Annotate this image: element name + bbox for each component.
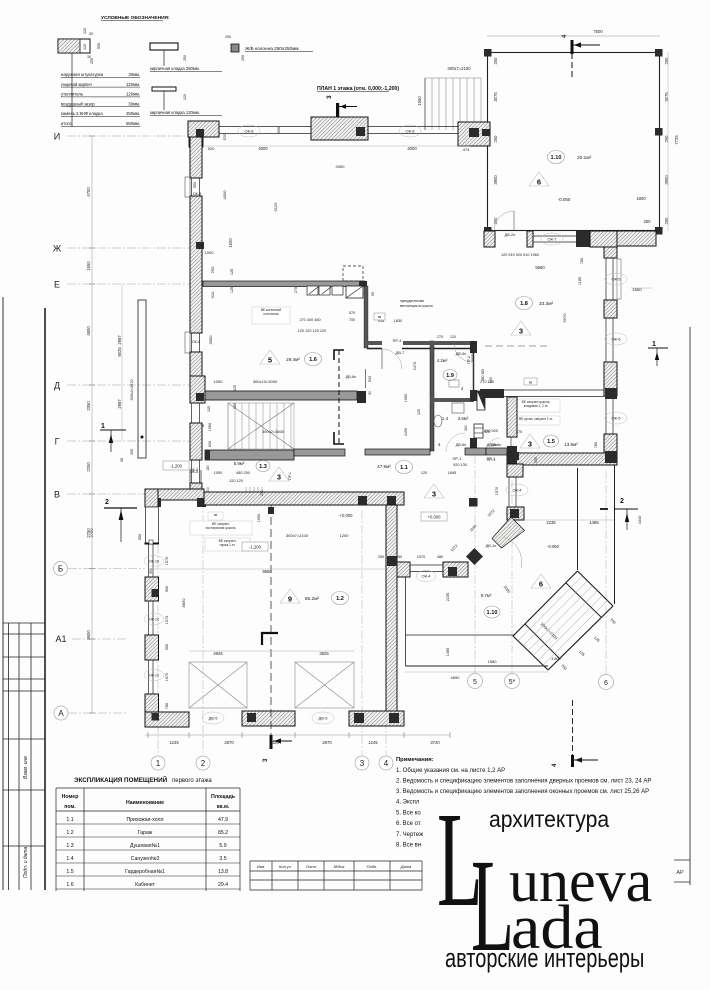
svg-text:3.5: 3.5 bbox=[219, 856, 226, 862]
svg-text:1050: 1050 bbox=[214, 379, 224, 384]
svg-text:33.3м²: 33.3м² bbox=[539, 301, 554, 307]
svg-text:3.5м²: 3.5м² bbox=[458, 416, 469, 421]
svg-text:1580: 1580 bbox=[488, 659, 498, 664]
svg-text:1: 1 bbox=[156, 759, 161, 768]
svg-text:1.9: 1.9 bbox=[446, 373, 454, 379]
svg-text:Гардеробная№1: Гардеробная№1 bbox=[125, 869, 165, 875]
svg-text:920: 920 bbox=[368, 376, 372, 382]
svg-text:-0.050: -0.050 bbox=[547, 544, 560, 549]
svg-text:пом.: пом. bbox=[64, 804, 76, 810]
svg-text:2. Ведомость и спецификацию эл: 2. Ведомость и спецификацию элементов за… bbox=[396, 779, 651, 785]
svg-text:ПР-1: ПР-1 bbox=[453, 457, 462, 461]
svg-text:ДВ-6п: ДВ-6п bbox=[346, 375, 357, 379]
terrace column (484,49) bbox=[484, 49, 492, 57]
east wall seg2 bbox=[604, 300, 617, 318]
frame box hline 7 bbox=[3, 845, 45, 847]
frame box vline 2 bbox=[30, 623, 32, 890]
svg-text:Кабинет: Кабинет bbox=[135, 882, 155, 888]
bottom dim chain bbox=[145, 734, 450, 736]
svg-text:И: И bbox=[54, 132, 60, 142]
svg-text:865: 865 bbox=[489, 377, 493, 383]
svg-text:550: 550 bbox=[97, 43, 101, 49]
svg-text:1.4: 1.4 bbox=[442, 416, 449, 421]
svg-text:520: 520 bbox=[222, 133, 227, 140]
svg-text:9.7м²: 9.7м² bbox=[481, 593, 492, 598]
window ОК-10 a bbox=[149, 544, 154, 577]
svg-text:архитектура: архитектура bbox=[489, 806, 610, 832]
svg-text:1.5: 1.5 bbox=[66, 869, 73, 875]
window ОК-8 c bbox=[192, 178, 200, 196]
kitchen top wall mid piece bbox=[527, 231, 533, 247]
svg-text:ДВ-9п: ДВ-9п bbox=[456, 352, 467, 356]
svg-text:8850: 8850 bbox=[181, 598, 186, 608]
axis line В bbox=[67, 493, 192, 495]
svg-text:550: 550 bbox=[193, 182, 197, 188]
room label 1.3 bbox=[256, 461, 270, 472]
svg-text:250: 250 bbox=[378, 555, 384, 559]
legend brick250 label underline bbox=[150, 70, 222, 72]
svg-text:2470: 2470 bbox=[413, 362, 417, 370]
column boiler west bbox=[196, 393, 204, 401]
room 1.5 bottom wall bbox=[507, 453, 617, 465]
svg-text:120: 120 bbox=[450, 335, 456, 339]
svg-text:250: 250 bbox=[493, 135, 498, 143]
svg-text:250: 250 bbox=[241, 55, 245, 61]
svg-text:300х10=3000: 300х10=3000 bbox=[253, 379, 278, 384]
axis circle 3 bbox=[355, 756, 369, 770]
svg-text:30мм.: 30мм. bbox=[128, 101, 140, 106]
svg-text:УСЛОВНЫЕ ОБОЗНАЧЕНИЯ:: УСЛОВНЫЕ ОБОЗНАЧЕНИЯ: bbox=[101, 15, 170, 21]
svg-text:1830: 1830 bbox=[394, 319, 402, 323]
bottom chain tick 404 bbox=[403, 732, 405, 738]
hall north wall b bbox=[365, 449, 430, 455]
garage west wall notch bbox=[149, 540, 153, 544]
position 6 se bbox=[531, 574, 551, 589]
bath fixtures bbox=[434, 380, 464, 427]
top-left corner notch bbox=[189, 137, 203, 147]
window ОК-5 left bbox=[192, 460, 200, 483]
svg-text:1.2: 1.2 bbox=[66, 830, 73, 836]
svg-text:1.3: 1.3 bbox=[259, 464, 267, 470]
axis line Д bbox=[67, 384, 192, 386]
svg-text:вк: вк bbox=[214, 513, 218, 517]
bath cluster west wall bbox=[430, 341, 434, 451]
svg-text:2: 2 bbox=[201, 759, 206, 768]
svg-text:3900: 3900 bbox=[493, 175, 498, 185]
axis line Г bbox=[67, 440, 192, 442]
svg-text:1960: 1960 bbox=[208, 423, 212, 431]
left chain tick Ж bbox=[89, 247, 95, 249]
svg-text:910: 910 bbox=[210, 291, 215, 298]
kitchen top wall black pier bbox=[576, 231, 590, 247]
svg-text:ОК-8: ОК-8 bbox=[406, 129, 416, 134]
terrace column (484,227) bbox=[484, 227, 492, 235]
svg-text:вентиляция из цоколя: вентиляция из цоколя bbox=[400, 304, 433, 308]
window ОК-10 b bbox=[149, 601, 154, 635]
plan title underline bbox=[317, 91, 389, 93]
axis line Б bbox=[68, 568, 145, 570]
garage east wall column bbox=[387, 556, 397, 566]
garage west wall seg1 bbox=[145, 543, 159, 544]
svg-text:4340: 4340 bbox=[638, 516, 642, 524]
label вк kitchen2 bbox=[524, 378, 537, 385]
svg-text:9300: 9300 bbox=[336, 164, 346, 169]
svg-text:1800: 1800 bbox=[636, 196, 646, 201]
terrace2 bottom line1 bbox=[406, 634, 516, 636]
label -1.200 garage bbox=[242, 542, 268, 551]
room label 1.10 terrace bbox=[548, 151, 565, 164]
svg-text:ПР-2: ПР-2 bbox=[467, 356, 471, 364]
window ОК-8 b bbox=[368, 127, 458, 134]
axis circle 5 bbox=[468, 674, 483, 689]
svg-text:ОК-8: ОК-8 bbox=[245, 129, 255, 134]
left dim chain line bbox=[91, 136, 93, 713]
door ДВ-7 arc bbox=[382, 349, 402, 369]
svg-text:2: 2 bbox=[620, 498, 624, 505]
legend row 5 underline bbox=[61, 125, 140, 127]
garage centre line blob bbox=[268, 507, 274, 514]
terrace entry stairs bbox=[425, 78, 481, 130]
svg-text:6: 6 bbox=[537, 178, 541, 187]
corridor dashed opening line bbox=[338, 350, 340, 444]
bottom chain tick 148 bbox=[147, 732, 149, 738]
svg-text:3900: 3900 bbox=[664, 175, 669, 185]
window ОК-10 c bbox=[149, 660, 154, 694]
svg-text:Изм.: Изм. bbox=[257, 864, 266, 869]
column south wall bbox=[448, 567, 457, 576]
svg-text:3: 3 bbox=[360, 759, 365, 768]
window ОК-8 a bbox=[219, 127, 311, 134]
svg-text:250: 250 bbox=[644, 219, 652, 224]
svg-text:85.2: 85.2 bbox=[218, 830, 228, 836]
svg-text:1570: 1570 bbox=[165, 616, 169, 624]
exterior wall top-left corner bbox=[188, 121, 219, 137]
legend brick120 symbol bbox=[152, 87, 176, 91]
svg-text:780: 780 bbox=[594, 442, 598, 448]
svg-text:5: 5 bbox=[473, 679, 477, 686]
svg-text:наружная штукатурка: наружная штукатурка bbox=[61, 72, 104, 77]
door ДВ-6п arc hall bbox=[486, 438, 500, 452]
kitchen top wall east piece bbox=[590, 231, 617, 247]
diagonal column (diamond) bbox=[466, 548, 483, 565]
svg-text:3: 3 bbox=[277, 473, 281, 482]
diagonal door ДВ-1п swing bbox=[503, 537, 522, 568]
svg-text:3. Ведомость и спецификацию эл: 3. Ведомость и спецификацию элементов за… bbox=[396, 789, 649, 795]
svg-text:ВЕ кухни, санузел 1 эт.: ВЕ кухни, санузел 1 эт. bbox=[519, 417, 553, 421]
svg-text:4800: 4800 bbox=[86, 326, 91, 336]
svg-text:550: 550 bbox=[277, 127, 281, 133]
svg-text:30мм.: 30мм. bbox=[128, 72, 140, 77]
svg-text:ДВ-6п: ДВ-6п bbox=[456, 443, 467, 447]
svg-text:180: 180 bbox=[206, 465, 210, 471]
garage west wall seg4 corner bbox=[145, 694, 159, 727]
svg-text:1570: 1570 bbox=[165, 673, 169, 681]
section mark 3 top bbox=[326, 95, 357, 131]
svg-text:1050: 1050 bbox=[404, 394, 408, 402]
hall east wall upper bbox=[507, 464, 523, 477]
svg-text:Номер: Номер bbox=[62, 794, 79, 800]
svg-text:1570: 1570 bbox=[165, 557, 169, 565]
position 3 kitchen bbox=[511, 321, 531, 336]
axis grid line 4 bbox=[385, 510, 387, 755]
svg-text:итого:: итого: bbox=[61, 121, 72, 126]
chimney dot bbox=[141, 436, 144, 439]
window label ОК-10 c bbox=[144, 670, 164, 681]
svg-text:ОК-4: ОК-4 bbox=[513, 488, 523, 493]
svg-text:1: 1 bbox=[101, 423, 105, 430]
frame outer left line bbox=[2, 297, 4, 890]
svg-text:воздушный зазор: воздушный зазор bbox=[61, 101, 95, 106]
frame right tick top bbox=[674, 859, 690, 861]
axis grid line 6 bbox=[605, 470, 607, 674]
dashed duct rect bbox=[343, 266, 363, 281]
svg-text:29.4м²: 29.4м² bbox=[286, 357, 300, 362]
axis grid line 3 bbox=[361, 510, 363, 755]
parking dim line bbox=[189, 650, 354, 652]
legend brick120 leader bbox=[163, 91, 165, 110]
svg-text:9: 9 bbox=[288, 595, 292, 604]
terrace section-4 dash line bbox=[571, 53, 573, 78]
legend column label underline bbox=[245, 50, 313, 52]
room label 1.8 bbox=[516, 297, 533, 310]
terrace2 inner vline bbox=[577, 468, 579, 570]
se bottom dim line bbox=[405, 671, 548, 673]
hall east wall lower bbox=[507, 507, 524, 520]
axis grid line 5 bbox=[474, 440, 476, 673]
svg-text:47.9: 47.9 bbox=[218, 817, 228, 823]
hall east wall block a bbox=[511, 452, 519, 460]
top interior dim line bbox=[203, 145, 470, 147]
svg-text:700: 700 bbox=[349, 318, 355, 322]
svg-text:1920: 1920 bbox=[228, 238, 233, 248]
garage south col c bbox=[354, 713, 364, 723]
svg-text:+0.000: +0.000 bbox=[340, 513, 354, 518]
svg-text:120мм.: 120мм. bbox=[126, 92, 140, 97]
section mark 2 right bbox=[600, 498, 638, 530]
svg-text:2870: 2870 bbox=[224, 740, 234, 745]
garage south col d bbox=[389, 713, 399, 723]
bath cluster east wall mid bbox=[473, 353, 475, 390]
svg-text:900: 900 bbox=[165, 586, 169, 592]
label ВЕ котельной bbox=[252, 307, 290, 324]
svg-text:ПЛАН 1 этажа (отм. 0,000;-1,20: ПЛАН 1 этажа (отм. 0,000;-1,200) bbox=[317, 86, 399, 92]
svg-text:1050: 1050 bbox=[214, 471, 222, 475]
garage south wall seg3 bbox=[349, 711, 404, 726]
bottom chain tick 189 bbox=[188, 732, 190, 738]
legend brick250 symbol bbox=[150, 43, 178, 50]
axis grid line 2 bbox=[202, 500, 204, 755]
corridor wall left end bbox=[205, 450, 210, 460]
left chain tick А1 bbox=[89, 638, 95, 640]
svg-text:125: 125 bbox=[230, 287, 234, 293]
svg-text:8600: 8600 bbox=[86, 630, 91, 640]
kitchen top wall west piece bbox=[484, 231, 495, 247]
svg-text:1200: 1200 bbox=[340, 533, 350, 538]
hall south wall west piece bbox=[397, 562, 410, 577]
terrace outline bbox=[488, 53, 660, 231]
left chain tick А bbox=[89, 712, 95, 714]
position 3 hall bbox=[424, 484, 444, 499]
svg-text:7725: 7725 bbox=[674, 135, 679, 145]
svg-text:А: А bbox=[58, 709, 64, 718]
bath divider 1.9/1.4 bbox=[430, 398, 474, 402]
svg-text:3: 3 bbox=[528, 440, 532, 449]
column bay bbox=[356, 127, 365, 136]
svg-text:6. Все от: 6. Все от bbox=[396, 821, 421, 827]
svg-text:ПР-4: ПР-4 bbox=[393, 339, 402, 343]
svg-text:2235: 2235 bbox=[446, 593, 450, 601]
svg-text:4000: 4000 bbox=[258, 146, 268, 151]
boiler bottom wall right end bbox=[357, 391, 366, 403]
basement stairs bbox=[228, 403, 294, 449]
svg-text:1695: 1695 bbox=[448, 471, 456, 475]
window label ОК-10 a bbox=[144, 556, 164, 567]
svg-text:270: 270 bbox=[294, 287, 298, 293]
garage drain mark bbox=[262, 633, 278, 645]
axis grid line 1 bbox=[157, 500, 159, 755]
svg-text:1485: 1485 bbox=[446, 648, 450, 656]
label -1.200 porch bbox=[163, 461, 189, 470]
legend row 2 underline bbox=[61, 96, 140, 98]
room label 1.10 se bbox=[484, 606, 500, 618]
svg-text:Примечания:: Примечания: bbox=[396, 757, 434, 763]
svg-text:125: 125 bbox=[233, 385, 237, 391]
level +0.000 hall bbox=[421, 512, 447, 521]
svg-text:950: 950 bbox=[138, 534, 142, 540]
window label ОК-4 hall bbox=[506, 484, 528, 496]
frame box hline 4 bbox=[3, 690, 45, 692]
svg-text:1.5: 1.5 bbox=[547, 439, 555, 445]
door ДВ-9п bbox=[471, 344, 473, 362]
svg-text:120 120: 120 120 bbox=[229, 479, 243, 483]
svg-text:В: В bbox=[54, 490, 60, 500]
svg-text:50: 50 bbox=[368, 391, 372, 395]
svg-text:4.800: 4.800 bbox=[551, 657, 561, 661]
garage north wall col b bbox=[387, 496, 396, 505]
svg-text:ДВ-5: ДВ-5 bbox=[319, 716, 329, 721]
svg-text:Дата: Дата bbox=[400, 864, 412, 869]
svg-text:920 130: 920 130 bbox=[453, 463, 467, 467]
svg-text:Прихожая-холл: Прихожая-холл bbox=[126, 817, 163, 823]
boiler top wall (axis Е) bbox=[203, 281, 365, 287]
left chain tick В bbox=[89, 493, 95, 495]
svg-text:1245: 1245 bbox=[169, 740, 179, 745]
svg-text:Подп. и дата: Подп. и дата bbox=[23, 846, 29, 878]
svg-text:4. Экспл: 4. Экспл bbox=[396, 800, 420, 806]
window label ОК-10 b bbox=[144, 614, 164, 625]
door ДВ-2л arc bbox=[494, 211, 514, 231]
svg-text:1.3: 1.3 bbox=[66, 843, 73, 849]
legend row 3 underline bbox=[61, 106, 140, 108]
svg-text:1550: 1550 bbox=[632, 287, 642, 292]
svg-text:ДВ-6п: ДВ-6п bbox=[487, 443, 498, 447]
left chain tick Д bbox=[89, 384, 95, 386]
room label 1.1 bbox=[396, 461, 413, 474]
axis circle 2 bbox=[196, 756, 210, 770]
svg-text:8. Все вн: 8. Все вн bbox=[396, 843, 421, 849]
svg-text:13.8м²: 13.8м² bbox=[564, 442, 578, 447]
svg-text:47.9м²: 47.9м² bbox=[377, 464, 391, 469]
legend brick120 label underline bbox=[150, 114, 222, 116]
door ДВ-6л arc hall bbox=[446, 433, 465, 452]
svg-text:250: 250 bbox=[664, 135, 669, 143]
east wall seg3 bbox=[604, 362, 617, 396]
svg-text:6: 6 bbox=[539, 580, 543, 589]
left wall upper segment bbox=[190, 137, 202, 178]
svg-text:300х7=2100: 300х7=2100 bbox=[286, 533, 309, 538]
svg-text:4000: 4000 bbox=[222, 190, 227, 200]
svg-text:5*: 5* bbox=[509, 679, 516, 686]
label вк garage bbox=[208, 512, 223, 520]
hall south wall east piece bbox=[443, 562, 468, 577]
svg-text:1000: 1000 bbox=[257, 514, 261, 522]
svg-text:5970: 5970 bbox=[562, 313, 567, 323]
svg-text:270: 270 bbox=[437, 335, 443, 339]
east wall seg4 bbox=[604, 434, 617, 453]
svg-text:5.9: 5.9 bbox=[219, 843, 226, 849]
svg-text:120: 120 bbox=[83, 28, 87, 34]
axis line И bbox=[67, 135, 192, 137]
label вк kitchen bbox=[374, 313, 385, 320]
svg-text:Д: Д bbox=[54, 381, 60, 391]
svg-text:Лист: Лист bbox=[305, 864, 317, 869]
svg-text:-1,200: -1,200 bbox=[170, 464, 183, 469]
terrace2 bottom line2 bbox=[406, 665, 549, 667]
bath shaft 1 bbox=[477, 391, 485, 410]
room table grid bbox=[56, 788, 240, 891]
bath cluster east wall black lower bbox=[470, 390, 477, 401]
legend title underline bbox=[101, 20, 163, 22]
section mark 3 bottom bbox=[263, 735, 292, 762]
svg-text:ОК-6: ОК-6 bbox=[192, 340, 201, 344]
svg-text:Подп.: Подп. bbox=[367, 864, 378, 869]
svg-text:480 250: 480 250 bbox=[236, 471, 250, 475]
free column hall bbox=[469, 498, 478, 507]
svg-text:ПР-1: ПР-1 bbox=[487, 458, 496, 462]
garage centre dashed line bbox=[270, 505, 272, 740]
svg-text:ОК-5: ОК-5 bbox=[190, 470, 199, 474]
hall north wall piece c bbox=[465, 448, 486, 455]
axis circle 4 bbox=[379, 756, 393, 770]
svg-text:-0.050: -0.050 bbox=[558, 197, 571, 202]
axis line Ж bbox=[67, 247, 192, 249]
svg-text:1.10: 1.10 bbox=[487, 610, 498, 616]
svg-text:6125: 6125 bbox=[273, 202, 278, 212]
svg-text:1.4: 1.4 bbox=[66, 856, 73, 862]
svg-text:900: 900 bbox=[165, 644, 169, 650]
kitchen bottom wall right block bbox=[605, 388, 617, 399]
svg-text:1.10: 1.10 bbox=[551, 155, 562, 161]
legend row 1 underline bbox=[61, 86, 140, 88]
window ОК-5 east1 bbox=[606, 258, 613, 300]
svg-text:6: 6 bbox=[604, 680, 608, 687]
svg-text:300х7=2100: 300х7=2100 bbox=[447, 66, 471, 71]
svg-text:1550: 1550 bbox=[86, 261, 91, 271]
svg-text:ДВ-5: ДВ-5 bbox=[209, 716, 219, 721]
window label ОК-8 a bbox=[238, 125, 260, 137]
frame box vline 1 bbox=[18, 623, 20, 890]
svg-text:2870: 2870 bbox=[322, 740, 332, 745]
garage west wall seg2 bbox=[145, 577, 159, 601]
bath shaft 2 bbox=[474, 424, 483, 438]
position 5 boiler bbox=[260, 350, 280, 365]
svg-text:ОК-4: ОК-4 bbox=[422, 574, 432, 579]
svg-text:кирпичная кладка 120мм.: кирпичная кладка 120мм. bbox=[150, 110, 200, 115]
svg-text:котельная: котельная bbox=[263, 312, 278, 316]
svg-text:3825: 3825 bbox=[319, 651, 329, 656]
svg-text:вк: вк bbox=[378, 315, 382, 319]
svg-text:Санузел№3: Санузел№3 bbox=[131, 856, 160, 862]
